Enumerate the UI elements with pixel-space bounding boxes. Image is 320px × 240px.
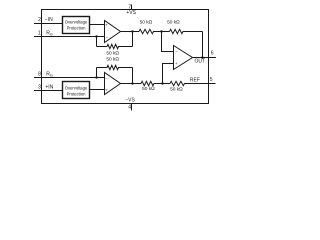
svg-text:3: 3 xyxy=(38,84,41,90)
svg-text:6: 6 xyxy=(211,51,214,57)
svg-text:50 kΩ: 50 kΩ xyxy=(167,20,180,26)
overvoltage protection box U2 xyxy=(63,82,90,99)
wire A1 feedback right vertical xyxy=(132,32,134,47)
junction A2 out/feedback xyxy=(131,82,133,84)
pin 3 +IN wire xyxy=(34,90,63,92)
resistor RF1 50k feedback A1 xyxy=(97,44,133,48)
svg-text:−VS: −VS xyxy=(125,97,135,103)
resistor R4 50k bottom row xyxy=(170,81,209,85)
junction OUT/feedback xyxy=(201,56,203,58)
svg-text:1: 1 xyxy=(38,31,41,37)
wire OVP2 to A2 + input xyxy=(90,89,105,91)
op-amp A1 xyxy=(105,21,121,43)
pin 6 OUT stub xyxy=(209,57,217,59)
op-amp A2 xyxy=(105,73,121,95)
wire A3 output xyxy=(193,57,209,59)
svg-text:−: − xyxy=(175,49,178,54)
outer package border xyxy=(42,10,209,104)
svg-text:Protection: Protection xyxy=(67,91,87,96)
svg-text:REF: REF xyxy=(190,77,200,83)
svg-text:50 kΩ: 50 kΩ xyxy=(106,56,119,62)
svg-text:50 kΩ: 50 kΩ xyxy=(106,50,119,56)
svg-text:+: + xyxy=(175,61,178,66)
resistor R2 50k top row xyxy=(170,29,203,33)
wire node to A3 - input xyxy=(162,32,174,52)
svg-text:−: − xyxy=(105,34,108,39)
overvoltage protection box U1 xyxy=(63,17,90,34)
svg-text:8: 8 xyxy=(38,71,41,77)
pin 4 -VS stub xyxy=(131,104,133,111)
wire OVP1 to A1 + input xyxy=(90,24,105,26)
junction bottom row node xyxy=(161,82,163,84)
wire A2 feedback right vertical xyxy=(132,68,134,84)
svg-text:50 kΩ: 50 kΩ xyxy=(170,86,183,92)
pin 8 RG wire xyxy=(34,77,105,79)
svg-text:4: 4 xyxy=(128,104,131,110)
svg-text:RG: RG xyxy=(46,31,53,37)
wire top feedback drop to OUT xyxy=(202,32,204,58)
svg-text:Protection: Protection xyxy=(67,25,87,30)
pin 5 REF stub xyxy=(209,83,216,85)
wire A2 feedback left vertical xyxy=(96,68,98,78)
svg-text:+: + xyxy=(105,22,108,27)
wire node to A3 + input xyxy=(163,64,174,84)
svg-text:2: 2 xyxy=(38,17,41,23)
svg-text:−: − xyxy=(105,75,108,80)
junction top row node xyxy=(160,30,162,32)
svg-text:OUT: OUT xyxy=(195,59,206,65)
svg-text:Overvoltage: Overvoltage xyxy=(65,86,88,91)
svg-text:+VS: +VS xyxy=(126,10,136,16)
resistor R1 50k top row xyxy=(139,29,170,33)
svg-text:+: + xyxy=(105,87,108,92)
junction RG1/feedback xyxy=(95,35,97,37)
wire A1 feedback left vertical xyxy=(96,37,98,47)
pin 2 -IN wire xyxy=(34,23,63,25)
svg-text:50 kΩ: 50 kΩ xyxy=(142,86,155,92)
svg-text:5: 5 xyxy=(210,77,213,83)
pin 1 RG wire xyxy=(34,36,105,38)
junction RG2/feedback xyxy=(95,76,97,78)
wire A2 output row xyxy=(121,83,142,85)
resistor R3 50k bottom row xyxy=(141,81,170,85)
svg-text:−IN: −IN xyxy=(45,17,53,23)
pin 7 +VS stub xyxy=(131,5,133,10)
op-amp A3 xyxy=(174,46,193,70)
junction A1 out/feedback xyxy=(131,30,133,32)
wire A1 output row xyxy=(121,31,140,33)
svg-text:Overvoltage: Overvoltage xyxy=(65,20,88,25)
svg-text:50 kΩ: 50 kΩ xyxy=(140,20,153,26)
svg-text:+IN: +IN xyxy=(45,85,53,91)
svg-text:RG: RG xyxy=(46,72,53,78)
resistor RF2 50k feedback A2 xyxy=(97,65,133,69)
